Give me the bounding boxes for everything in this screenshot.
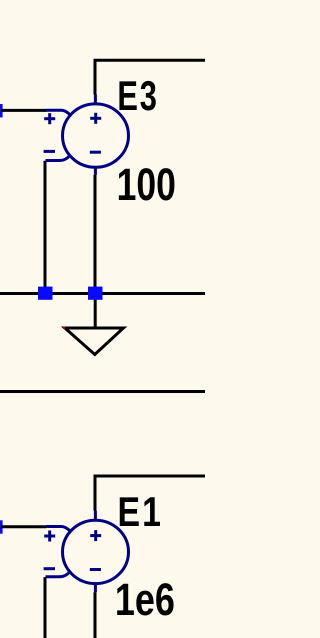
control + pin lead (46, 527, 70, 531)
node port tick (left control terminal at sheet edge) (0, 104, 3, 117)
internal - sign (90, 151, 101, 154)
svg-text:E3: E3 (117, 72, 158, 119)
control + sign (44, 531, 55, 542)
VCVS E3 (top instance) (0, 60, 205, 293)
control - sign (44, 567, 55, 570)
svg-text:E1: E1 (118, 489, 163, 536)
pin stub top (94, 94, 97, 105)
source body: VCVS ellipse E3 (63, 104, 129, 167)
wire (control - pin down to junction) (44, 161, 47, 294)
control + sign (44, 113, 55, 124)
wire (bottom pin down to junction) (94, 175, 97, 294)
ground (63, 295, 123, 355)
wire (top pin up and right to sheet edge) (95, 60, 205, 94)
junction node B (center) (88, 287, 103, 300)
svg-text:100: 100 (117, 159, 176, 210)
wire (left horizontal to control + pin) (1, 109, 47, 112)
control + pin lead (46, 110, 70, 114)
pin stub top (94, 511, 97, 522)
control - pin lead (46, 572, 70, 577)
wire rail 1 (0, 292, 205, 295)
wire rail 2 (0, 390, 205, 393)
wire (bottom pin down, runs off sheet) (94, 592, 97, 638)
control - sign (44, 150, 55, 153)
VCVS E1 (bottom instance) (0, 476, 205, 638)
internal + sign (90, 530, 101, 541)
source body: VCVS ellipse E1 (63, 520, 129, 583)
wire (left horizontal to control + pin) (1, 525, 47, 528)
node port tick (0, 520, 3, 533)
pin stub bottom (94, 582, 97, 592)
junction node A (left) (38, 287, 53, 300)
svg-text:1e6: 1e6 (115, 574, 175, 625)
wire (control - pin down, runs off sheet) (44, 577, 47, 638)
control - pin lead (46, 156, 70, 161)
internal - sign (90, 568, 101, 571)
pin stub bottom (94, 166, 97, 175)
internal + sign (90, 113, 101, 124)
wire (top pin up and right to sheet edge) (95, 476, 205, 511)
